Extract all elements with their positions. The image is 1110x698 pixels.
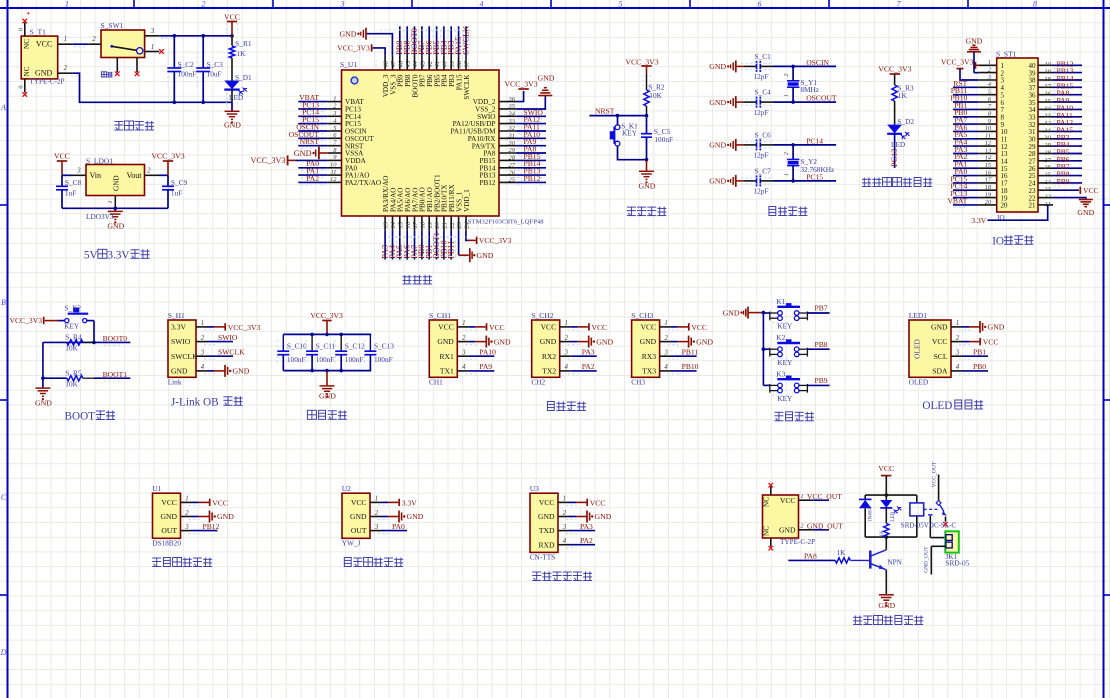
svg-text:22: 22: [1044, 194, 1051, 201]
svg-text:28: 28: [1044, 149, 1051, 156]
svg-text:PA3: PA3: [580, 522, 593, 531]
svg-text:RXD: RXD: [538, 540, 555, 549]
svg-text:25: 25: [509, 177, 516, 184]
svg-text:1: 1: [956, 320, 959, 327]
svg-text:13: 13: [383, 221, 390, 228]
svg-text:33: 33: [1043, 113, 1050, 120]
svg-text:U3: U3: [530, 484, 539, 493]
svg-text:GND: GND: [294, 149, 312, 158]
svg-text:12: 12: [330, 176, 337, 183]
svg-text:16: 16: [985, 169, 992, 176]
svg-text:TX1: TX1: [440, 367, 454, 376]
svg-text:S_ST1: S_ST1: [996, 50, 1017, 59]
svg-text:S_R2: S_R2: [648, 82, 665, 91]
svg-text:31: 31: [1043, 127, 1050, 134]
svg-text:GND: GND: [224, 121, 241, 130]
svg-text:21: 21: [1029, 202, 1037, 210]
svg-text:23: 23: [1044, 186, 1050, 193]
svg-text:GND: GND: [931, 323, 948, 332]
svg-text:K2: K2: [776, 333, 785, 342]
svg-text:40: 40: [442, 60, 449, 67]
svg-text:46: 46: [397, 60, 404, 67]
svg-text:VCC_3V3: VCC_3V3: [228, 323, 261, 332]
svg-text:1: 1: [563, 496, 566, 503]
svg-text:1: 1: [784, 94, 790, 97]
svg-text:PB1: PB1: [973, 347, 986, 356]
svg-text:VCC: VCC: [983, 338, 999, 347]
svg-text:1: 1: [462, 320, 465, 327]
svg-text:Vin: Vin: [90, 171, 102, 180]
svg-text:TXD: TXD: [539, 526, 555, 535]
svg-text:32: 32: [1043, 120, 1051, 127]
svg-text:GND: GND: [639, 181, 656, 190]
svg-text:S_C6: S_C6: [755, 130, 772, 139]
svg-text:GND: GND: [709, 141, 726, 150]
svg-text:OSCOUT: OSCOUT: [806, 94, 837, 103]
svg-text:S_C3: S_C3: [207, 60, 224, 69]
svg-text:3: 3: [184, 524, 189, 531]
svg-text:12pF: 12pF: [754, 108, 769, 117]
svg-text:NRST: NRST: [300, 137, 320, 146]
svg-text:VCC: VCC: [1083, 186, 1099, 195]
svg-text:KEY: KEY: [777, 394, 793, 403]
svg-text:S_C13: S_C13: [374, 341, 394, 350]
svg-text:38: 38: [456, 60, 463, 68]
svg-text:PC14: PC14: [806, 136, 823, 145]
svg-text:NC: NC: [23, 39, 31, 49]
svg-text:VCC_3V3: VCC_3V3: [479, 236, 512, 245]
svg-text:19: 19: [427, 221, 434, 228]
svg-text:GND: GND: [878, 601, 895, 610]
svg-text:VCC: VCC: [691, 323, 707, 332]
svg-text:GND: GND: [107, 222, 124, 231]
svg-text:29: 29: [1044, 142, 1051, 149]
svg-text:4: 4: [988, 81, 991, 88]
svg-text:12pF: 12pF: [754, 151, 769, 160]
svg-text:12: 12: [985, 140, 992, 147]
svg-text:39: 39: [1043, 69, 1051, 76]
svg-text:1: 1: [800, 493, 803, 500]
svg-text:11: 11: [985, 133, 991, 140]
svg-text:GND: GND: [407, 512, 424, 521]
svg-text:VCC_3V3: VCC_3V3: [941, 58, 974, 67]
svg-text:Link: Link: [168, 377, 182, 386]
svg-text:VCC: VCC: [54, 151, 70, 160]
svg-text:5: 5: [988, 89, 991, 96]
svg-text:3: 3: [563, 350, 568, 357]
svg-text:SDA: SDA: [932, 367, 948, 376]
svg-text:PA10: PA10: [479, 347, 496, 356]
svg-text:PA9: PA9: [479, 362, 492, 371]
svg-text:IO: IO: [992, 235, 1004, 247]
svg-text:4: 4: [201, 364, 205, 371]
svg-text:S_C10: S_C10: [287, 341, 307, 350]
svg-text:14: 14: [390, 221, 397, 228]
svg-text:30: 30: [1043, 135, 1051, 142]
svg-text:SWIO: SWIO: [171, 337, 191, 346]
svg-text:KEY: KEY: [622, 129, 638, 138]
svg-text:S_C9: S_C9: [171, 178, 188, 187]
svg-text:NRST: NRST: [595, 106, 615, 115]
svg-text:CN-TTS: CN-TTS: [530, 552, 556, 561]
svg-text:RX1: RX1: [439, 352, 454, 361]
svg-text:PA2/TX/AO: PA2/TX/AO: [345, 179, 381, 187]
svg-text:1: 1: [201, 320, 204, 327]
svg-text:VCC: VCC: [489, 323, 505, 332]
svg-text:24: 24: [1044, 179, 1050, 186]
svg-text:24: 24: [464, 221, 471, 228]
svg-text:14: 14: [985, 155, 991, 162]
svg-text:43: 43: [420, 60, 427, 67]
svg-text:S_LDO1: S_LDO1: [86, 156, 113, 165]
svg-text:35: 35: [1043, 98, 1050, 105]
svg-text:PB11: PB11: [682, 347, 699, 356]
svg-text:10K: 10K: [65, 380, 78, 389]
svg-text:4: 4: [480, 0, 484, 9]
svg-text:26: 26: [1044, 164, 1051, 171]
svg-text:17: 17: [412, 221, 419, 228]
svg-text:4: 4: [563, 538, 567, 545]
svg-text:PA2: PA2: [582, 362, 595, 371]
svg-text:U1: U1: [152, 484, 161, 493]
svg-text:29: 29: [509, 147, 516, 154]
svg-text:S_CH3: S_CH3: [631, 311, 653, 320]
svg-text:3: 3: [987, 74, 991, 81]
svg-text:TX2: TX2: [542, 367, 556, 376]
svg-text:SRD-05: SRD-05: [945, 558, 969, 567]
svg-text:1: 1: [185, 496, 188, 503]
svg-text:15: 15: [397, 221, 404, 228]
svg-text:GND: GND: [477, 251, 494, 260]
svg-text:15: 15: [985, 162, 991, 169]
svg-text:16: 16: [405, 221, 412, 228]
svg-text:45: 45: [405, 60, 412, 67]
svg-text:PA0: PA0: [392, 522, 405, 531]
svg-text:S_C7: S_C7: [755, 166, 772, 175]
svg-text:NPN: NPN: [887, 557, 902, 566]
svg-text:3.3V: 3.3V: [171, 323, 186, 332]
svg-text:GND: GND: [966, 36, 983, 45]
svg-text:4: 4: [564, 364, 568, 371]
svg-text:30: 30: [508, 140, 516, 147]
svg-text:J-Link OB: J-Link OB: [171, 396, 219, 408]
svg-text:K3: K3: [776, 369, 785, 378]
svg-text:GND: GND: [350, 512, 367, 521]
svg-text:2: 2: [201, 335, 205, 342]
svg-text:C: C: [1, 493, 7, 502]
svg-text:33: 33: [508, 118, 516, 125]
svg-text:27: 27: [509, 162, 516, 169]
svg-text:8: 8: [1033, 0, 1037, 9]
svg-text:PB8: PB8: [815, 340, 828, 349]
svg-text:1: 1: [375, 496, 378, 503]
svg-text:2: 2: [202, 0, 206, 9]
svg-text:PA3: PA3: [582, 347, 595, 356]
svg-text:3: 3: [200, 350, 205, 357]
svg-text:2: 2: [64, 65, 68, 72]
svg-text:VCC: VCC: [161, 498, 177, 507]
svg-text:S_R4: S_R4: [65, 332, 82, 341]
svg-text:1: 1: [64, 36, 67, 43]
svg-text:12pF: 12pF: [754, 187, 769, 196]
svg-text:3: 3: [663, 350, 668, 357]
svg-text:1uF: 1uF: [171, 188, 182, 197]
svg-text:OLED: OLED: [913, 338, 922, 358]
svg-text:VCC: VCC: [592, 323, 608, 332]
svg-text:1: 1: [333, 95, 336, 102]
svg-text:OLED: OLED: [922, 400, 952, 412]
svg-text:20: 20: [1001, 202, 1009, 210]
svg-text:3.3V: 3.3V: [402, 498, 417, 507]
svg-text:SWCLK: SWCLK: [171, 352, 198, 361]
svg-text:CH3: CH3: [631, 377, 645, 386]
svg-text:48: 48: [383, 60, 390, 67]
svg-text:YW_J: YW_J: [342, 538, 361, 547]
svg-text:1: 1: [664, 320, 667, 327]
svg-text:18: 18: [985, 184, 992, 191]
svg-text:10uF: 10uF: [207, 69, 222, 78]
svg-text:100nF: 100nF: [178, 69, 197, 78]
svg-text:3: 3: [340, 0, 345, 9]
svg-text:47: 47: [390, 60, 397, 67]
svg-text:GND: GND: [35, 69, 53, 78]
svg-text:B: B: [1, 298, 6, 307]
svg-text:5V: 5V: [84, 249, 98, 261]
svg-text:VCC_OUT: VCC_OUT: [807, 492, 842, 501]
svg-text:OUT: OUT: [351, 526, 367, 535]
svg-text:GND: GND: [161, 512, 178, 521]
svg-text:11: 11: [330, 169, 336, 176]
svg-text:NC: NC: [763, 526, 771, 536]
svg-text:GND: GND: [233, 367, 250, 376]
svg-text:VCC_3V3: VCC_3V3: [250, 156, 285, 165]
svg-text:36: 36: [1043, 91, 1051, 98]
svg-text:VCC: VCC: [224, 13, 240, 22]
svg-text:OUT: OUT: [161, 526, 177, 535]
svg-text:100nF: 100nF: [654, 135, 673, 144]
svg-text:S_R1: S_R1: [235, 39, 252, 48]
svg-text:18: 18: [420, 221, 427, 228]
svg-text:LED: LED: [891, 140, 905, 149]
svg-text:36: 36: [508, 96, 516, 103]
svg-text:3: 3: [562, 524, 567, 531]
svg-text:GND: GND: [339, 29, 356, 38]
svg-text:RX2: RX2: [542, 352, 557, 361]
svg-text:37: 37: [464, 60, 471, 68]
svg-text:27: 27: [1044, 157, 1051, 164]
svg-text:GND: GND: [779, 525, 796, 534]
svg-text:1K: 1K: [898, 91, 908, 100]
svg-text:GND: GND: [494, 337, 511, 346]
svg-text:GND: GND: [437, 337, 454, 346]
svg-text:PB12: PB12: [480, 179, 496, 187]
svg-text:3: 3: [461, 350, 466, 357]
svg-text:VCC_OUT: VCC_OUT: [931, 461, 937, 487]
svg-text:VCC_3V3: VCC_3V3: [310, 311, 343, 320]
svg-text:42: 42: [427, 60, 434, 67]
svg-text:20: 20: [434, 221, 441, 228]
svg-text:GND_OUT: GND_OUT: [807, 522, 843, 531]
svg-text:GND: GND: [540, 337, 557, 346]
svg-text:S_D1: S_D1: [235, 73, 252, 82]
svg-text:S_H1: S_H1: [168, 311, 185, 320]
svg-text:2: 2: [375, 510, 379, 517]
svg-text:2: 2: [462, 335, 466, 342]
svg-text:PC13: PC13: [890, 149, 899, 167]
svg-text:SWIO: SWIO: [218, 333, 238, 342]
svg-text:1: 1: [784, 173, 790, 176]
svg-text:VCC_3V3: VCC_3V3: [151, 151, 184, 160]
svg-text:RX3: RX3: [642, 352, 657, 361]
svg-text:13: 13: [985, 147, 991, 154]
svg-text:10: 10: [985, 125, 992, 132]
svg-text:25: 25: [1044, 172, 1050, 179]
svg-text:PA8: PA8: [804, 551, 817, 560]
svg-text:GND: GND: [709, 62, 726, 71]
svg-text:17: 17: [985, 177, 992, 184]
svg-text:1: 1: [107, 200, 114, 203]
svg-text:3: 3: [955, 350, 960, 357]
svg-text:31: 31: [508, 133, 516, 140]
svg-text:6: 6: [758, 0, 762, 9]
svg-text:2: 2: [92, 36, 96, 43]
svg-text:1N4007: 1N4007: [868, 505, 873, 522]
svg-text:CH2: CH2: [531, 377, 545, 386]
svg-text:8MHz: 8MHz: [800, 85, 819, 94]
svg-text:VBAT: VBAT: [947, 196, 967, 205]
svg-text:40: 40: [1044, 61, 1051, 68]
svg-text:S_C2: S_C2: [178, 60, 195, 69]
svg-text:GND: GND: [35, 398, 52, 407]
svg-text:28: 28: [509, 155, 516, 162]
svg-text:S_SW1: S_SW1: [101, 21, 124, 30]
svg-text:GND: GND: [217, 512, 234, 521]
svg-text:K1: K1: [776, 297, 785, 306]
svg-text:VCC: VCC: [590, 498, 606, 507]
svg-text:PB10: PB10: [682, 362, 699, 371]
svg-text:32: 32: [508, 125, 516, 132]
svg-text:S_U1: S_U1: [340, 60, 357, 69]
svg-text:VCC_3V3: VCC_3V3: [10, 316, 43, 325]
svg-text:GND_OUT: GND_OUT: [923, 546, 929, 573]
svg-text:VCC_3V3: VCC_3V3: [337, 43, 370, 52]
svg-text:1K: 1K: [879, 530, 885, 537]
svg-text:Vout: Vout: [127, 171, 143, 180]
svg-text:S_CH2: S_CH2: [531, 311, 553, 320]
svg-text:OSCIN: OSCIN: [806, 58, 829, 67]
svg-text:LED1: LED1: [909, 311, 928, 320]
svg-text:LED: LED: [229, 93, 243, 102]
svg-text:BOOT: BOOT: [65, 411, 96, 423]
svg-text:41: 41: [434, 61, 441, 68]
svg-text:PA2: PA2: [306, 174, 319, 183]
svg-text:TX3: TX3: [642, 367, 656, 376]
svg-text:2: 2: [784, 152, 790, 155]
svg-text:KEY: KEY: [64, 322, 80, 331]
svg-text:VCC: VCC: [780, 496, 796, 505]
svg-text:10: 10: [330, 162, 337, 169]
svg-text:5: 5: [619, 0, 623, 9]
svg-text:VCC_3V3: VCC_3V3: [504, 79, 537, 88]
svg-text:3: 3: [76, 168, 81, 175]
svg-text:DS18B20: DS18B20: [152, 538, 181, 547]
svg-text:GND: GND: [709, 177, 726, 186]
svg-text:SWCLK: SWCLK: [218, 347, 245, 356]
svg-text:S_CH1: S_CH1: [429, 311, 451, 320]
svg-text:GND: GND: [709, 98, 726, 107]
svg-text:23: 23: [456, 221, 463, 228]
svg-text:GND: GND: [1077, 208, 1094, 217]
svg-text:CH1: CH1: [429, 377, 443, 386]
svg-text:VCC: VCC: [640, 323, 656, 332]
svg-text:GND: GND: [538, 512, 555, 521]
svg-text:2: 2: [564, 335, 568, 342]
svg-text:4: 4: [462, 364, 466, 371]
svg-text:PB0: PB0: [973, 362, 986, 371]
svg-text:34: 34: [508, 111, 516, 118]
svg-text:S_D2: S_D2: [897, 117, 914, 126]
svg-text:2: 2: [185, 510, 189, 517]
svg-text:PB9: PB9: [1057, 177, 1070, 186]
svg-text:PB12: PB12: [524, 174, 541, 183]
svg-text:VCC_3V3: VCC_3V3: [878, 64, 911, 73]
svg-text:100nF: 100nF: [345, 355, 364, 364]
svg-text:100nF: 100nF: [287, 355, 306, 364]
svg-text:12pF: 12pF: [754, 72, 769, 81]
svg-text:S_K2: S_K2: [64, 303, 81, 312]
svg-text:4: 4: [956, 364, 960, 371]
svg-text:GND: GND: [988, 323, 1005, 332]
svg-text:S_C8: S_C8: [65, 178, 82, 187]
svg-text:GND: GND: [595, 512, 612, 521]
svg-text:PB12: PB12: [203, 522, 220, 531]
svg-text:GND: GND: [696, 337, 713, 346]
svg-text:S_T1: S_T1: [30, 27, 47, 36]
svg-text:D: D: [0, 648, 7, 657]
svg-text:SWCLK: SWCLK: [463, 74, 471, 100]
svg-text:VCC: VCC: [541, 323, 557, 332]
svg-text:KEY: KEY: [777, 358, 793, 367]
svg-text:BOOT0: BOOT0: [103, 334, 128, 343]
svg-text:U2: U2: [342, 484, 351, 493]
svg-text:PB7: PB7: [815, 304, 828, 313]
svg-text:GND: GND: [640, 337, 657, 346]
svg-text:1: 1: [988, 59, 991, 66]
svg-text:BOOT1: BOOT1: [103, 370, 128, 379]
svg-text:3.3V: 3.3V: [107, 249, 129, 261]
svg-text:35: 35: [508, 103, 516, 110]
svg-text:VCC_3V3: VCC_3V3: [625, 57, 658, 66]
svg-text:38: 38: [1043, 76, 1051, 83]
svg-text:34: 34: [1043, 105, 1050, 112]
svg-text:OLED: OLED: [909, 377, 928, 386]
svg-text:IO: IO: [997, 213, 1005, 222]
svg-text:S_C1: S_C1: [755, 52, 772, 61]
svg-text:100nF: 100nF: [374, 355, 393, 364]
svg-text:NC: NC: [23, 66, 31, 76]
svg-text:2: 2: [784, 74, 790, 77]
svg-text:19: 19: [985, 191, 992, 198]
svg-text:SCL: SCL: [934, 352, 948, 361]
svg-text:21: 21: [442, 222, 449, 229]
svg-text:32.768KHz: 32.768KHz: [800, 165, 835, 174]
svg-text:3: 3: [374, 524, 379, 531]
svg-text:VCC: VCC: [932, 337, 948, 346]
svg-text:0: 0: [18, 28, 25, 31]
svg-text:VCC: VCC: [212, 498, 228, 507]
svg-text:S_C11: S_C11: [316, 341, 336, 350]
svg-text:SRD-05VDC-SL-C: SRD-05VDC-SL-C: [901, 522, 957, 530]
